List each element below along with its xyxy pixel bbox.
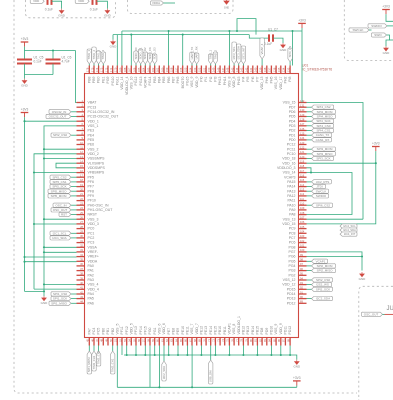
svg-text:PI8: PI8	[288, 76, 292, 81]
svg-text:VDDA: VDDA	[88, 259, 98, 263]
svg-text:PB15: PB15	[256, 326, 260, 335]
svg-text:136: 136	[272, 67, 276, 72]
svg-text:SPI5_MISO: SPI5_MISO	[51, 189, 68, 193]
svg-text:PE14: PE14	[209, 326, 213, 335]
svg-text:GND: GND	[280, 48, 288, 52]
svg-text:OSC_OUT: OSC_OUT	[53, 208, 68, 212]
sheet frame bottom-right oscillator box	[359, 286, 393, 400]
net tag SPI2_MISO (right pin)	[307, 270, 312, 272]
wire VDD rail riser j13	[149, 346, 151, 388]
svg-text:PE3: PE3	[88, 129, 95, 133]
svg-text:PE10: PE10	[181, 326, 185, 335]
net tag SPI4_CS1 (right pin)	[307, 130, 312, 132]
svg-text:VDD_7: VDD_7	[195, 323, 199, 334]
svg-text:VSS_10: VSS_10	[129, 76, 133, 89]
ground U1_C7	[281, 43, 286, 48]
svg-text:SPI5_CS2: SPI5_CS2	[52, 175, 66, 179]
wire rail drop	[144, 346, 146, 356]
wire VFBSMPS	[34, 172, 77, 174]
svg-text:SPI1_MOSI: SPI1_MOSI	[87, 357, 91, 372]
net tag SDIO_D0 (top pin)	[134, 51, 138, 64]
svg-text:PB3: PB3	[153, 76, 157, 83]
wire VREF-	[44, 251, 77, 253]
net tag TIM1_2 (top pin)	[92, 47, 96, 64]
capacitor C1 0.1uF	[48, 0, 52, 5]
svg-text:GND: GND	[224, 6, 230, 9]
wire +3V3 stem to rail A	[301, 28, 303, 31]
svg-text:I2C3_SDA: I2C3_SDA	[237, 46, 241, 59]
net tag SPI1_CS0 (left pin 42)	[71, 293, 77, 295]
svg-text:105: 105	[300, 225, 305, 229]
svg-text:VDD_17: VDD_17	[279, 76, 283, 89]
wire rail drop	[214, 346, 216, 356]
net tag VDDA (box2)	[151, 1, 164, 5]
svg-text:153: 153	[193, 67, 197, 72]
svg-text:PH4: PH4	[265, 76, 269, 83]
svg-text:VSS_12: VSS_12	[283, 278, 296, 282]
svg-text:PG7: PG7	[288, 250, 295, 254]
svg-text:SPI3_MOSI: SPI3_MOSI	[317, 147, 333, 151]
svg-text:SWDIO: SWDIO	[371, 24, 382, 28]
svg-text:SWCLK: SWCLK	[352, 28, 364, 32]
svg-text:OSC32_OUT: OSC32_OUT	[49, 115, 67, 119]
svg-text:GND: GND	[21, 84, 29, 88]
svg-text:PD12: PD12	[287, 301, 296, 305]
svg-text:139: 139	[258, 67, 262, 72]
node rail A tap	[291, 30, 293, 32]
svg-text:UART_RX: UART_RX	[195, 46, 199, 59]
svg-text:GND: GND	[58, 14, 66, 18]
svg-text:PF5: PF5	[88, 175, 94, 179]
svg-text:VDD_16: VDD_16	[282, 161, 295, 165]
svg-text:TIM1_1: TIM1_1	[87, 49, 91, 59]
wire rail drop	[228, 346, 230, 356]
ground SWD box	[384, 46, 389, 51]
svg-text:PA6: PA6	[88, 301, 94, 305]
svg-text:SPI5_CS1: SPI5_CS1	[52, 180, 66, 184]
wire rail A riser pin j7	[121, 31, 123, 66]
net tag SWDIO (right pin)	[307, 195, 312, 197]
svg-text:SDIO_CK: SDIO_CK	[148, 47, 152, 59]
svg-text:PG13: PG13	[139, 76, 143, 85]
wire rail drop	[270, 346, 272, 356]
wire rail B riser pin j6	[116, 35, 118, 66]
svg-text:VSS_14: VSS_14	[283, 171, 296, 175]
net tag SPI6_CS2 (right pin)	[307, 204, 312, 206]
net tag UART_TX (top pin)	[190, 52, 194, 64]
svg-text:VSS_16: VSS_16	[274, 76, 278, 89]
svg-text:I2C2_SDA: I2C2_SDA	[162, 366, 166, 379]
svg-text:SDIO_D0: SDIO_D0	[134, 47, 138, 59]
svg-text:SPI5_SCK: SPI5_SCK	[52, 185, 66, 189]
net tag CAN1_TX (right pin)	[307, 134, 312, 136]
wire rail drop	[289, 346, 291, 356]
ground bottom rail	[295, 360, 300, 365]
wire to ground cap bank	[24, 75, 26, 79]
svg-text:PE5: PE5	[88, 138, 95, 142]
svg-text:PA3: PA3	[88, 278, 94, 282]
wire VSSA	[44, 246, 77, 248]
svg-text:PF7: PF7	[88, 185, 94, 189]
svg-text:OSC32_IN: OSC32_IN	[52, 110, 67, 114]
svg-text:PB11: PB11	[223, 326, 227, 334]
net tag SPI5_MOSI (left pin 21)	[71, 195, 77, 197]
svg-text:VSS_8: VSS_8	[228, 76, 232, 87]
svg-text:144: 144	[235, 67, 239, 72]
svg-text:VDD: VDD	[33, 0, 39, 3]
wire rail B riser j20	[182, 35, 184, 66]
wire right gnd net upper	[307, 252, 363, 271]
svg-text:PB0: PB0	[101, 328, 105, 335]
svg-text:129: 129	[300, 113, 305, 117]
svg-text:I2C4_SDA: I2C4_SDA	[343, 228, 356, 232]
svg-text:JTDI: JTDI	[316, 185, 322, 189]
wire SWD +3V3 elbow	[386, 14, 393, 21]
svg-text:PD1: PD1	[289, 133, 296, 137]
svg-text:PD3: PD3	[289, 124, 296, 128]
svg-text:149: 149	[212, 67, 216, 72]
svg-text:VBAT: VBAT	[88, 101, 98, 105]
svg-text:PG6: PG6	[288, 255, 295, 259]
svg-text:142: 142	[244, 67, 248, 72]
wire rail drop	[126, 346, 128, 356]
svg-text:137: 137	[268, 67, 272, 72]
svg-text:VREF-: VREF-	[88, 250, 99, 254]
node VSSSMPS tap	[43, 157, 45, 159]
node rail tap	[168, 354, 170, 356]
svg-text:103: 103	[300, 234, 305, 238]
IC U01 left pins 1-44 with numbers and labels	[77, 99, 120, 306]
svg-text:PD8: PD8	[260, 328, 264, 335]
node right gnd tap	[361, 255, 363, 257]
svg-text:PD6: PD6	[289, 110, 296, 114]
svg-text:VFBSMPS: VFBSMPS	[88, 171, 105, 175]
node VSS_4 tap	[43, 283, 45, 285]
svg-text:PC9: PC9	[289, 227, 296, 231]
svg-text:VDD_12: VDD_12	[282, 283, 295, 287]
svg-text:109: 109	[300, 206, 305, 210]
wire VDD rail riser j22	[191, 346, 193, 388]
svg-text:108: 108	[300, 211, 305, 215]
svg-text:PB2: PB2	[111, 328, 115, 335]
svg-text:113: 113	[300, 188, 305, 192]
wire VSS_1 from bus	[44, 126, 77, 296]
svg-text:PA12: PA12	[287, 194, 295, 198]
wire rail A riser	[228, 31, 230, 66]
svg-text:I2S2_WS: I2S2_WS	[316, 283, 329, 287]
svg-text:170: 170	[114, 67, 118, 72]
svg-text:TIM2_1: TIM2_1	[209, 49, 213, 59]
svg-text:GND: GND	[293, 365, 301, 369]
net tag SPI3_MOSI (right pin)	[307, 148, 312, 150]
svg-text:TIM3_CH2: TIM3_CH2	[97, 350, 101, 364]
svg-text:PI7: PI7	[256, 76, 260, 81]
svg-text:+3V3: +3V3	[293, 376, 301, 380]
net tag VCAP1 (right pin)	[307, 260, 312, 262]
wire rail drop	[177, 346, 179, 356]
svg-text:SPI1_SCK: SPI1_SCK	[53, 297, 67, 301]
wire VDD rail riser j15	[158, 346, 160, 388]
net tag SPI4_CS2 (right pin)	[307, 106, 312, 108]
svg-text:I2C1_SDA: I2C1_SDA	[52, 236, 66, 240]
svg-text:133: 133	[286, 67, 290, 72]
node VDD_3 tap	[33, 223, 35, 225]
wire vertical from rail A down right side	[301, 31, 303, 103]
svg-text:PB9: PB9	[92, 76, 96, 83]
svg-text:PD14: PD14	[287, 292, 296, 296]
svg-text:GND: GND	[383, 51, 391, 55]
svg-text:PE0: PE0	[97, 76, 101, 83]
wire bottom VSS rail	[124, 354, 290, 356]
net tag SDIO_CK (top pin)	[148, 53, 152, 64]
node rail tap	[200, 354, 202, 356]
node VDD_16 tap	[375, 162, 377, 164]
svg-text:PH14: PH14	[223, 76, 227, 85]
wire rail A riser	[292, 31, 294, 66]
svg-text:164: 164	[142, 67, 146, 72]
svg-text:PH15: PH15	[237, 76, 241, 85]
svg-text:RST: RST	[61, 213, 67, 217]
svg-text:NRST: NRST	[88, 213, 98, 217]
net tag SWO	[372, 33, 387, 37]
svg-text:166: 166	[132, 67, 136, 72]
ground left bus	[42, 296, 47, 301]
svg-text:140: 140	[254, 67, 258, 72]
ground cap bank	[22, 79, 27, 84]
net tag SPI2_SCK (right pin)	[307, 288, 312, 290]
svg-text:PF15: PF15	[143, 326, 147, 334]
svg-text:PD7: PD7	[289, 105, 296, 109]
wire swd aux	[390, 39, 393, 41]
svg-text:SPI1_CS0: SPI1_CS0	[53, 292, 67, 296]
net tag I2C3_INT (top pin)	[241, 46, 245, 64]
svg-text:I2C2_SDA: I2C2_SDA	[316, 297, 330, 301]
svg-text:138: 138	[263, 67, 267, 72]
wire rail B elbow to cap U1_C7	[249, 35, 268, 39]
svg-text:173: 173	[100, 67, 104, 72]
svg-text:146: 146	[226, 67, 230, 72]
node VSS_14 join	[310, 171, 312, 173]
svg-text:VSSA: VSSA	[88, 245, 98, 249]
IC U01 STM32H753IIT6 body	[85, 74, 299, 338]
wire right pin row 219 to vertical	[307, 218, 364, 220]
svg-text:167: 167	[128, 67, 132, 72]
node rail tap	[289, 354, 291, 356]
svg-text:PF13: PF13	[134, 326, 138, 334]
svg-text:GND: GND	[359, 277, 367, 281]
svg-text:VDDA: VDDA	[152, 1, 160, 5]
svg-text:PG0: PG0	[148, 327, 152, 334]
wire SWCLK stub	[369, 29, 372, 31]
svg-text:116: 116	[300, 174, 305, 178]
wire rail drop	[154, 346, 156, 356]
svg-text:155: 155	[184, 67, 188, 72]
svg-text:TIM2_CH1: TIM2_CH1	[111, 358, 115, 372]
node rail tap	[280, 354, 282, 356]
capacitor U1_C5 0.1uF	[17, 60, 32, 64]
svg-text:158: 158	[170, 67, 174, 72]
wire +3V3 vertical bus	[24, 121, 26, 291]
svg-text:118: 118	[300, 164, 305, 168]
svg-text:123: 123	[300, 141, 305, 145]
svg-text:VCAP1: VCAP1	[316, 259, 326, 263]
svg-text:PD2: PD2	[289, 129, 296, 133]
wire VDDLDO_3 elbow	[307, 168, 312, 173]
svg-text:PA8: PA8	[289, 213, 295, 217]
svg-text:OSC_IN: OSC_IN	[55, 203, 66, 207]
svg-text:PC5: PC5	[97, 328, 101, 335]
wire U1_C5 lower lead	[24, 64, 26, 75]
svg-text:PE4: PE4	[88, 133, 95, 137]
net tag SDIO_D2 (top pin)	[143, 52, 147, 64]
svg-text:PE9: PE9	[176, 328, 180, 335]
wire rail drop	[200, 346, 202, 356]
svg-text:VDDLDO_4: VDDLDO_4	[125, 76, 129, 95]
svg-text:PD4: PD4	[289, 119, 296, 123]
wire C1 to gnd	[52, 1, 62, 8]
node VFBSMPS tap	[33, 171, 35, 173]
svg-text:VCAP1: VCAP1	[228, 323, 232, 335]
svg-text:SDIO_D1: SDIO_D1	[139, 47, 143, 59]
svg-text:+3V3: +3V3	[382, 5, 390, 9]
wire box2 tag to right	[164, 2, 176, 4]
svg-text:PH0-OSC_IN: PH0-OSC_IN	[88, 203, 109, 207]
IC U01 right pins 132-89 with numbers and labels	[277, 99, 306, 306]
svg-text:106: 106	[300, 220, 305, 224]
svg-text:PG4: PG4	[288, 264, 295, 268]
svg-text:PE12: PE12	[200, 326, 204, 335]
svg-text:PF12: PF12	[125, 326, 129, 334]
svg-text:SWCLK: SWCLK	[316, 189, 327, 193]
net tag TIM2_2 (top pin)	[213, 52, 217, 64]
svg-text:PB12: PB12	[242, 326, 246, 335]
svg-text:PA0: PA0	[88, 264, 94, 268]
net tag USB_VBUS (bottom mid2)	[210, 346, 212, 361]
svg-text:PC12: PC12	[287, 143, 296, 147]
svg-text:VCAP3: VCAP3	[284, 175, 296, 179]
svg-text:PG3: PG3	[288, 269, 295, 273]
ground right side	[360, 272, 365, 277]
svg-text:152: 152	[198, 67, 202, 72]
svg-text:PH3: PH3	[176, 76, 180, 83]
wire box2 elbow net	[237, 19, 256, 35]
svg-text:PG10: PG10	[111, 76, 115, 85]
node rail tap	[242, 354, 244, 356]
wire +3V3 stem	[24, 117, 26, 121]
IC U01 bottom pins 45-88 with numbers and labels	[86, 316, 293, 346]
svg-text:UART_TX: UART_TX	[190, 47, 194, 60]
wire VSS_4	[44, 283, 77, 285]
wire rail drop	[256, 346, 258, 356]
svg-text:SDIO_D3: SDIO_D3	[153, 47, 157, 59]
svg-text:PG11: PG11	[115, 76, 119, 85]
wire bottom rail drop	[121, 346, 123, 356]
wire VSS_14 to vertical	[307, 173, 353, 215]
net tag I2C4_INT (right floating)	[340, 232, 357, 236]
svg-text:PI5: PI5	[246, 76, 250, 81]
wire rail A riser	[168, 31, 170, 66]
svg-text:PF10: PF10	[88, 199, 96, 203]
svg-text:PH2: PH2	[284, 76, 288, 83]
wire top VDD rail A	[122, 30, 302, 32]
svg-text:107: 107	[300, 216, 305, 220]
svg-text:PI1: PI1	[204, 76, 208, 81]
net tag SPI4_MISO (right pin)	[307, 116, 312, 118]
net tag SPI2_CS0 (left pin 8)	[71, 134, 77, 136]
svg-text:GND: GND	[104, 14, 112, 18]
wire rail right elbow to gnd	[290, 355, 297, 360]
node rail tap	[135, 354, 137, 356]
svg-text:VDD: VDD	[78, 0, 84, 3]
svg-text:100: 100	[300, 248, 305, 252]
wire VBAT net from top rail to pin 1	[76, 51, 77, 103]
svg-text:PC2: PC2	[88, 236, 95, 240]
node rail tap	[256, 354, 258, 356]
wire U1_C7 to gnd	[273, 38, 283, 43]
wire SWO stub and gnd drop	[386, 35, 390, 46]
svg-text:SPI5_MOSI: SPI5_MOSI	[51, 194, 67, 198]
net tag VDD (box1 cap C2)	[75, 0, 89, 3]
svg-text:PC6: PC6	[289, 241, 296, 245]
net tag VDD (box1 cap C1)	[30, 0, 44, 3]
svg-text:124: 124	[300, 136, 305, 140]
svg-text:PD11: PD11	[284, 326, 288, 335]
svg-text:163: 163	[146, 67, 150, 72]
svg-text:PH1-OSC_OUT: PH1-OSC_OUT	[88, 208, 114, 212]
net tag RST (left pin 25)	[71, 214, 77, 216]
net tag SPI4_CS0 (right pin)	[307, 125, 312, 127]
wire U1_C6 upper lead	[52, 51, 54, 60]
svg-text:PA1: PA1	[88, 269, 94, 273]
svg-text:122: 122	[300, 146, 305, 150]
svg-text:VSS_1: VSS_1	[88, 124, 99, 128]
node VREF- tap	[43, 251, 45, 253]
svg-text:+3V3: +3V3	[21, 108, 29, 112]
wire rail drop	[280, 346, 282, 356]
svg-text:GND: GND	[110, 45, 118, 49]
svg-text:156: 156	[179, 67, 183, 72]
svg-text:165: 165	[137, 67, 141, 72]
svg-text:VSS_3: VSS_3	[88, 217, 99, 221]
svg-text:SPI2_CS0: SPI2_CS0	[53, 133, 67, 137]
node VREF+ tap	[23, 256, 25, 258]
net tag TIM1_3 (top pin)	[96, 51, 100, 64]
net tag TIM2_1 (top pin)	[209, 54, 213, 64]
svg-text:PD9: PD9	[265, 328, 269, 335]
svg-text:159: 159	[165, 67, 169, 72]
svg-text:CAN1_TX: CAN1_TX	[316, 133, 330, 137]
svg-text:PA10: PA10	[287, 203, 295, 207]
svg-text:I2C4_INT: I2C4_INT	[344, 232, 356, 236]
node rail tap	[154, 354, 156, 356]
net tag OSC_OUT (left pin 24)	[71, 209, 77, 211]
ground (box2)	[224, 0, 229, 4]
svg-text:PC14-OSC32_IN: PC14-OSC32_IN	[88, 110, 115, 114]
net tag SPI5_MISO (left pin 20)	[71, 190, 77, 192]
svg-text:SPI4_MISO: SPI4_MISO	[317, 115, 334, 119]
svg-text:112: 112	[300, 192, 305, 196]
node rail A tap	[168, 30, 170, 32]
svg-text:126: 126	[300, 127, 305, 131]
svg-text:+3V3: +3V3	[298, 18, 306, 22]
svg-text:VDD_6: VDD_6	[162, 323, 166, 334]
capacitor U1_C7 0.1uF	[269, 34, 273, 41]
svg-text:SWDIO: SWDIO	[316, 194, 327, 198]
svg-text:PB6: PB6	[167, 76, 171, 83]
node elbow tap	[236, 30, 238, 32]
svg-text:I2C3_SCL: I2C3_SCL	[232, 46, 236, 59]
node VSSA tap	[43, 246, 45, 248]
